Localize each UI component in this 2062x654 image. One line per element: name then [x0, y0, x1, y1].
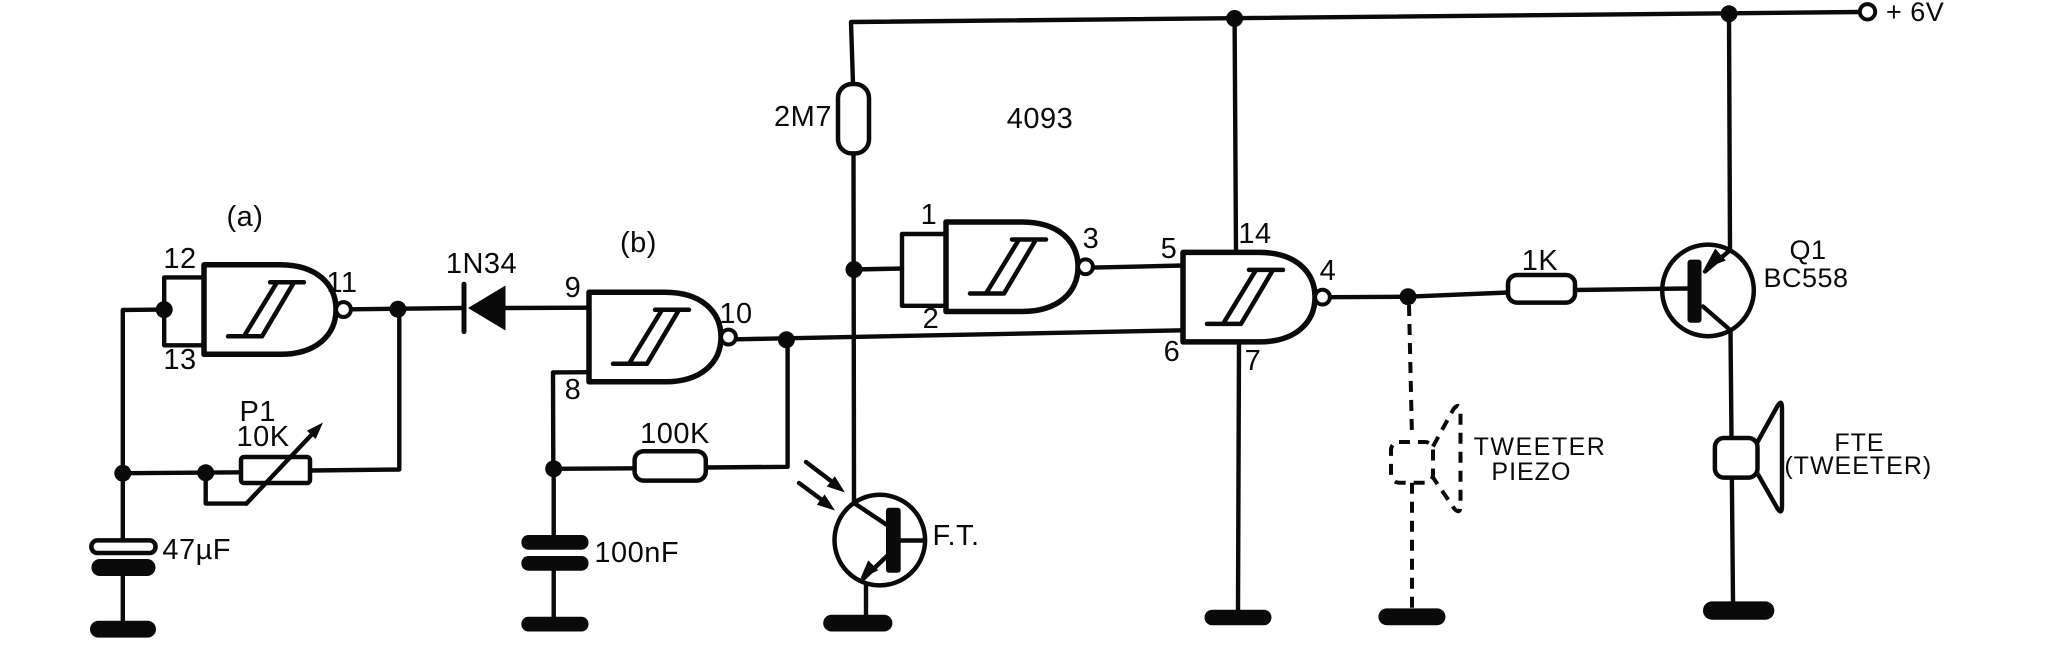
- wire dashed to piezo: [1409, 305, 1412, 437]
- wire 100K to node: [554, 466, 635, 471]
- wire U1a input box: [164, 277, 204, 345]
- svg-text:47µF: 47µF: [162, 534, 231, 566]
- ground piezo: [1378, 608, 1445, 625]
- node rail-14: [1226, 10, 1243, 27]
- potentiometer P1 10K: [241, 457, 310, 483]
- svg-text:100K: 100K: [640, 418, 710, 450]
- svg-text:100nF: 100nF: [594, 537, 679, 569]
- svg-text:F.T.: F.T.: [932, 520, 979, 552]
- svg-text:9: 9: [565, 272, 582, 304]
- wire U1b output to U1d pin6: [736, 330, 1183, 339]
- svg-text:10: 10: [719, 298, 752, 330]
- wire output node down to pot: [310, 309, 399, 470]
- svg-text:13: 13: [163, 344, 196, 376]
- node rail-Q1: [1721, 5, 1738, 22]
- svg-text:6: 6: [1164, 336, 1181, 368]
- wire Q1 collector to speaker: [1731, 331, 1734, 602]
- svg-text:12: 12: [163, 243, 196, 275]
- diode 1N34: [462, 284, 467, 331]
- light arrow 2: [799, 483, 822, 500]
- piezo tweeter: [1391, 442, 1433, 483]
- node 2M7/gate U1c input: [846, 261, 863, 278]
- wire pin7 to ground: [1238, 342, 1239, 610]
- svg-text:BC558: BC558: [1763, 263, 1848, 293]
- svg-text:10K: 10K: [236, 421, 289, 453]
- speaker FTE: [1715, 438, 1758, 478]
- wire 1K to Q1 base: [1575, 289, 1687, 291]
- wire gate a output to diode: [351, 308, 464, 309]
- wire feedback to 100K: [706, 340, 788, 468]
- wire pin14 from rail: [1235, 19, 1236, 253]
- svg-text:Q1: Q1: [1789, 235, 1826, 265]
- svg-text:(b): (b): [620, 227, 657, 259]
- svg-text:1N34: 1N34: [446, 248, 517, 280]
- gate U1d (pins 5,6,4): [1183, 252, 1330, 342]
- svg-text:5: 5: [1161, 233, 1178, 265]
- svg-text:14: 14: [1238, 218, 1271, 250]
- node gate a output: [389, 301, 406, 318]
- svg-text:+ 6V: + 6V: [1886, 0, 1944, 27]
- gate U1b (pins 9,8,10): [589, 292, 736, 382]
- svg-text:4: 4: [1320, 255, 1337, 287]
- wire F.T. emitter to ground: [864, 583, 868, 614]
- wire U1c output to U1d pin5: [1093, 266, 1183, 268]
- wire pin8: [553, 372, 589, 469]
- wire 47uF to ground: [121, 576, 125, 621]
- transistor Q1: [1662, 245, 1754, 337]
- wire 100nF to ground: [552, 571, 556, 617]
- wire U1d output: [1330, 295, 1408, 300]
- node U1a input: [156, 301, 173, 318]
- svg-text:(TWEETER): (TWEETER): [1784, 452, 1932, 480]
- node U1d output: [1400, 288, 1417, 305]
- wire rail to Q1: [1729, 14, 1730, 250]
- ground speaker: [1703, 601, 1774, 619]
- wire pot left: [123, 470, 241, 475]
- node cap/pot junction: [114, 465, 131, 482]
- wire junction to 47uF: [121, 473, 125, 540]
- gate U1c (pins 1,2,3): [946, 222, 1093, 312]
- node U1b output: [778, 331, 795, 348]
- node pot wiper: [197, 464, 214, 481]
- wire pot wiper: [206, 473, 247, 504]
- wire 2M7 to F.T. collector: [851, 153, 856, 503]
- ground pin7: [1205, 610, 1272, 626]
- svg-text:TWEETER: TWEETER: [1474, 433, 1607, 461]
- node 100K/100nF: [545, 460, 562, 477]
- ground 47uF: [90, 621, 156, 638]
- svg-text:PIEZO: PIEZO: [1491, 458, 1571, 486]
- phototransistor F.T.: [835, 495, 926, 586]
- gate U1a (pins 12,13,11): [204, 265, 351, 355]
- wire U1c input box: [902, 234, 946, 306]
- svg-text:11: 11: [326, 267, 357, 299]
- light arrow 1: [806, 462, 831, 481]
- svg-text:3: 3: [1083, 223, 1100, 255]
- svg-text:8: 8: [565, 374, 582, 406]
- wire input node to cap junction: [123, 310, 164, 474]
- capacitor 100nF: [521, 535, 588, 550]
- resistor 2M7: [838, 84, 869, 153]
- resistor 1K: [1508, 275, 1575, 303]
- ground 100nF: [521, 617, 588, 632]
- svg-text:2: 2: [923, 303, 940, 335]
- wire node to 1K: [1408, 293, 1508, 297]
- svg-text:1K: 1K: [1522, 245, 1559, 277]
- wire +6V supply rail: [851, 12, 1860, 84]
- svg-text:7: 7: [1245, 345, 1262, 377]
- svg-text:4093: 4093: [1007, 103, 1074, 135]
- capacitor 47uF: [91, 540, 155, 553]
- svg-text:(a): (a): [227, 201, 264, 233]
- svg-text:2M7: 2M7: [774, 101, 832, 133]
- svg-text:1: 1: [921, 199, 938, 231]
- wire diode to pin9: [506, 306, 590, 311]
- ground F.T.: [823, 615, 892, 632]
- wire node to U1c input box: [854, 269, 902, 270]
- resistor 100K: [635, 451, 706, 480]
- wire dashed piezo to ground: [1410, 483, 1414, 609]
- wire 100nF top: [552, 469, 556, 535]
- +6V terminal: [1860, 4, 1875, 19]
